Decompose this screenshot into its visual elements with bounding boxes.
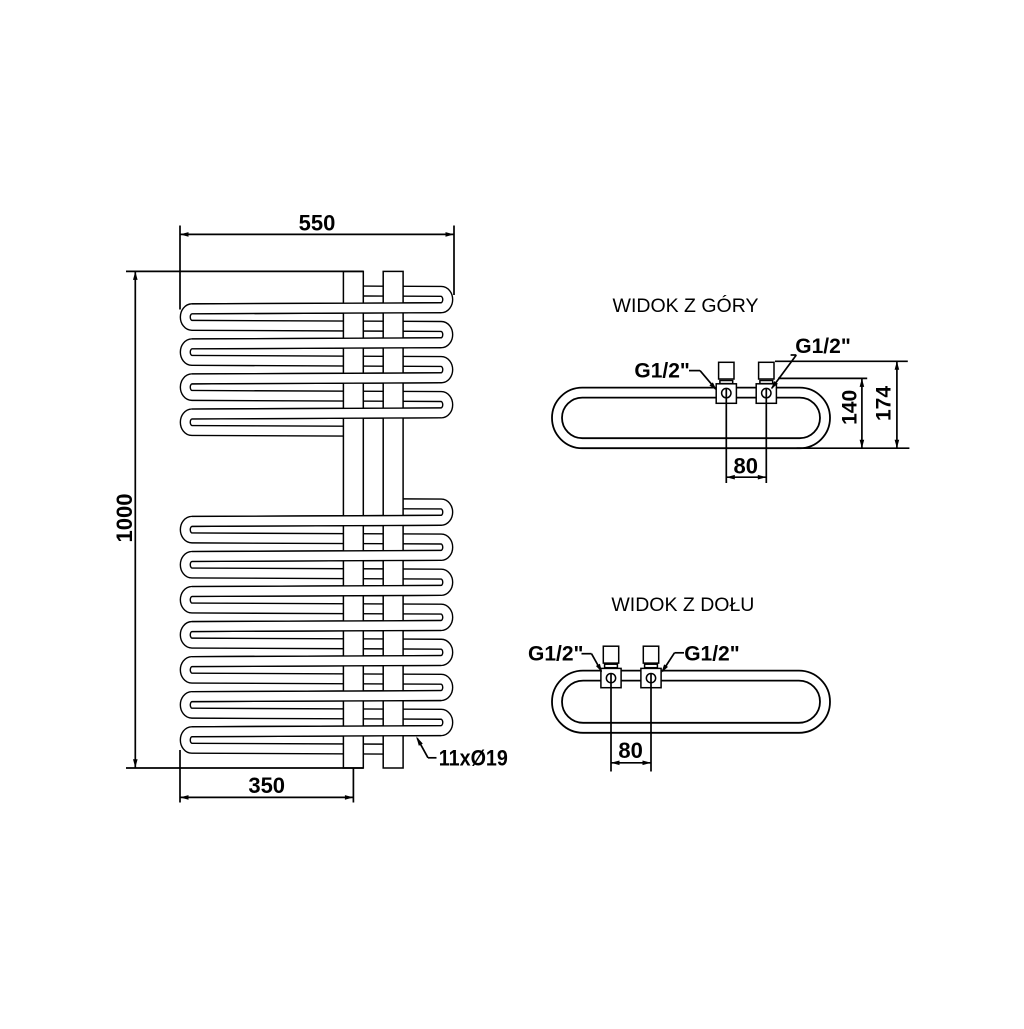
svg-text:WIDOK Z GÓRY: WIDOK Z GÓRY <box>613 294 759 317</box>
svg-text:G1/2": G1/2" <box>528 642 583 665</box>
svg-text:174: 174 <box>873 386 896 421</box>
svg-text:G1/2": G1/2" <box>795 335 850 358</box>
svg-text:G1/2": G1/2" <box>684 642 739 665</box>
svg-text:80: 80 <box>618 738 642 763</box>
svg-text:1000: 1000 <box>112 494 137 543</box>
svg-text:350: 350 <box>248 773 285 798</box>
svg-text:WIDOK Z DOŁU: WIDOK Z DOŁU <box>611 594 754 616</box>
svg-text:G1/2": G1/2" <box>634 359 689 382</box>
svg-text:80: 80 <box>734 453 758 478</box>
svg-text:140: 140 <box>839 390 862 425</box>
svg-text:11xØ19: 11xØ19 <box>439 746 508 771</box>
svg-text:550: 550 <box>299 211 336 236</box>
